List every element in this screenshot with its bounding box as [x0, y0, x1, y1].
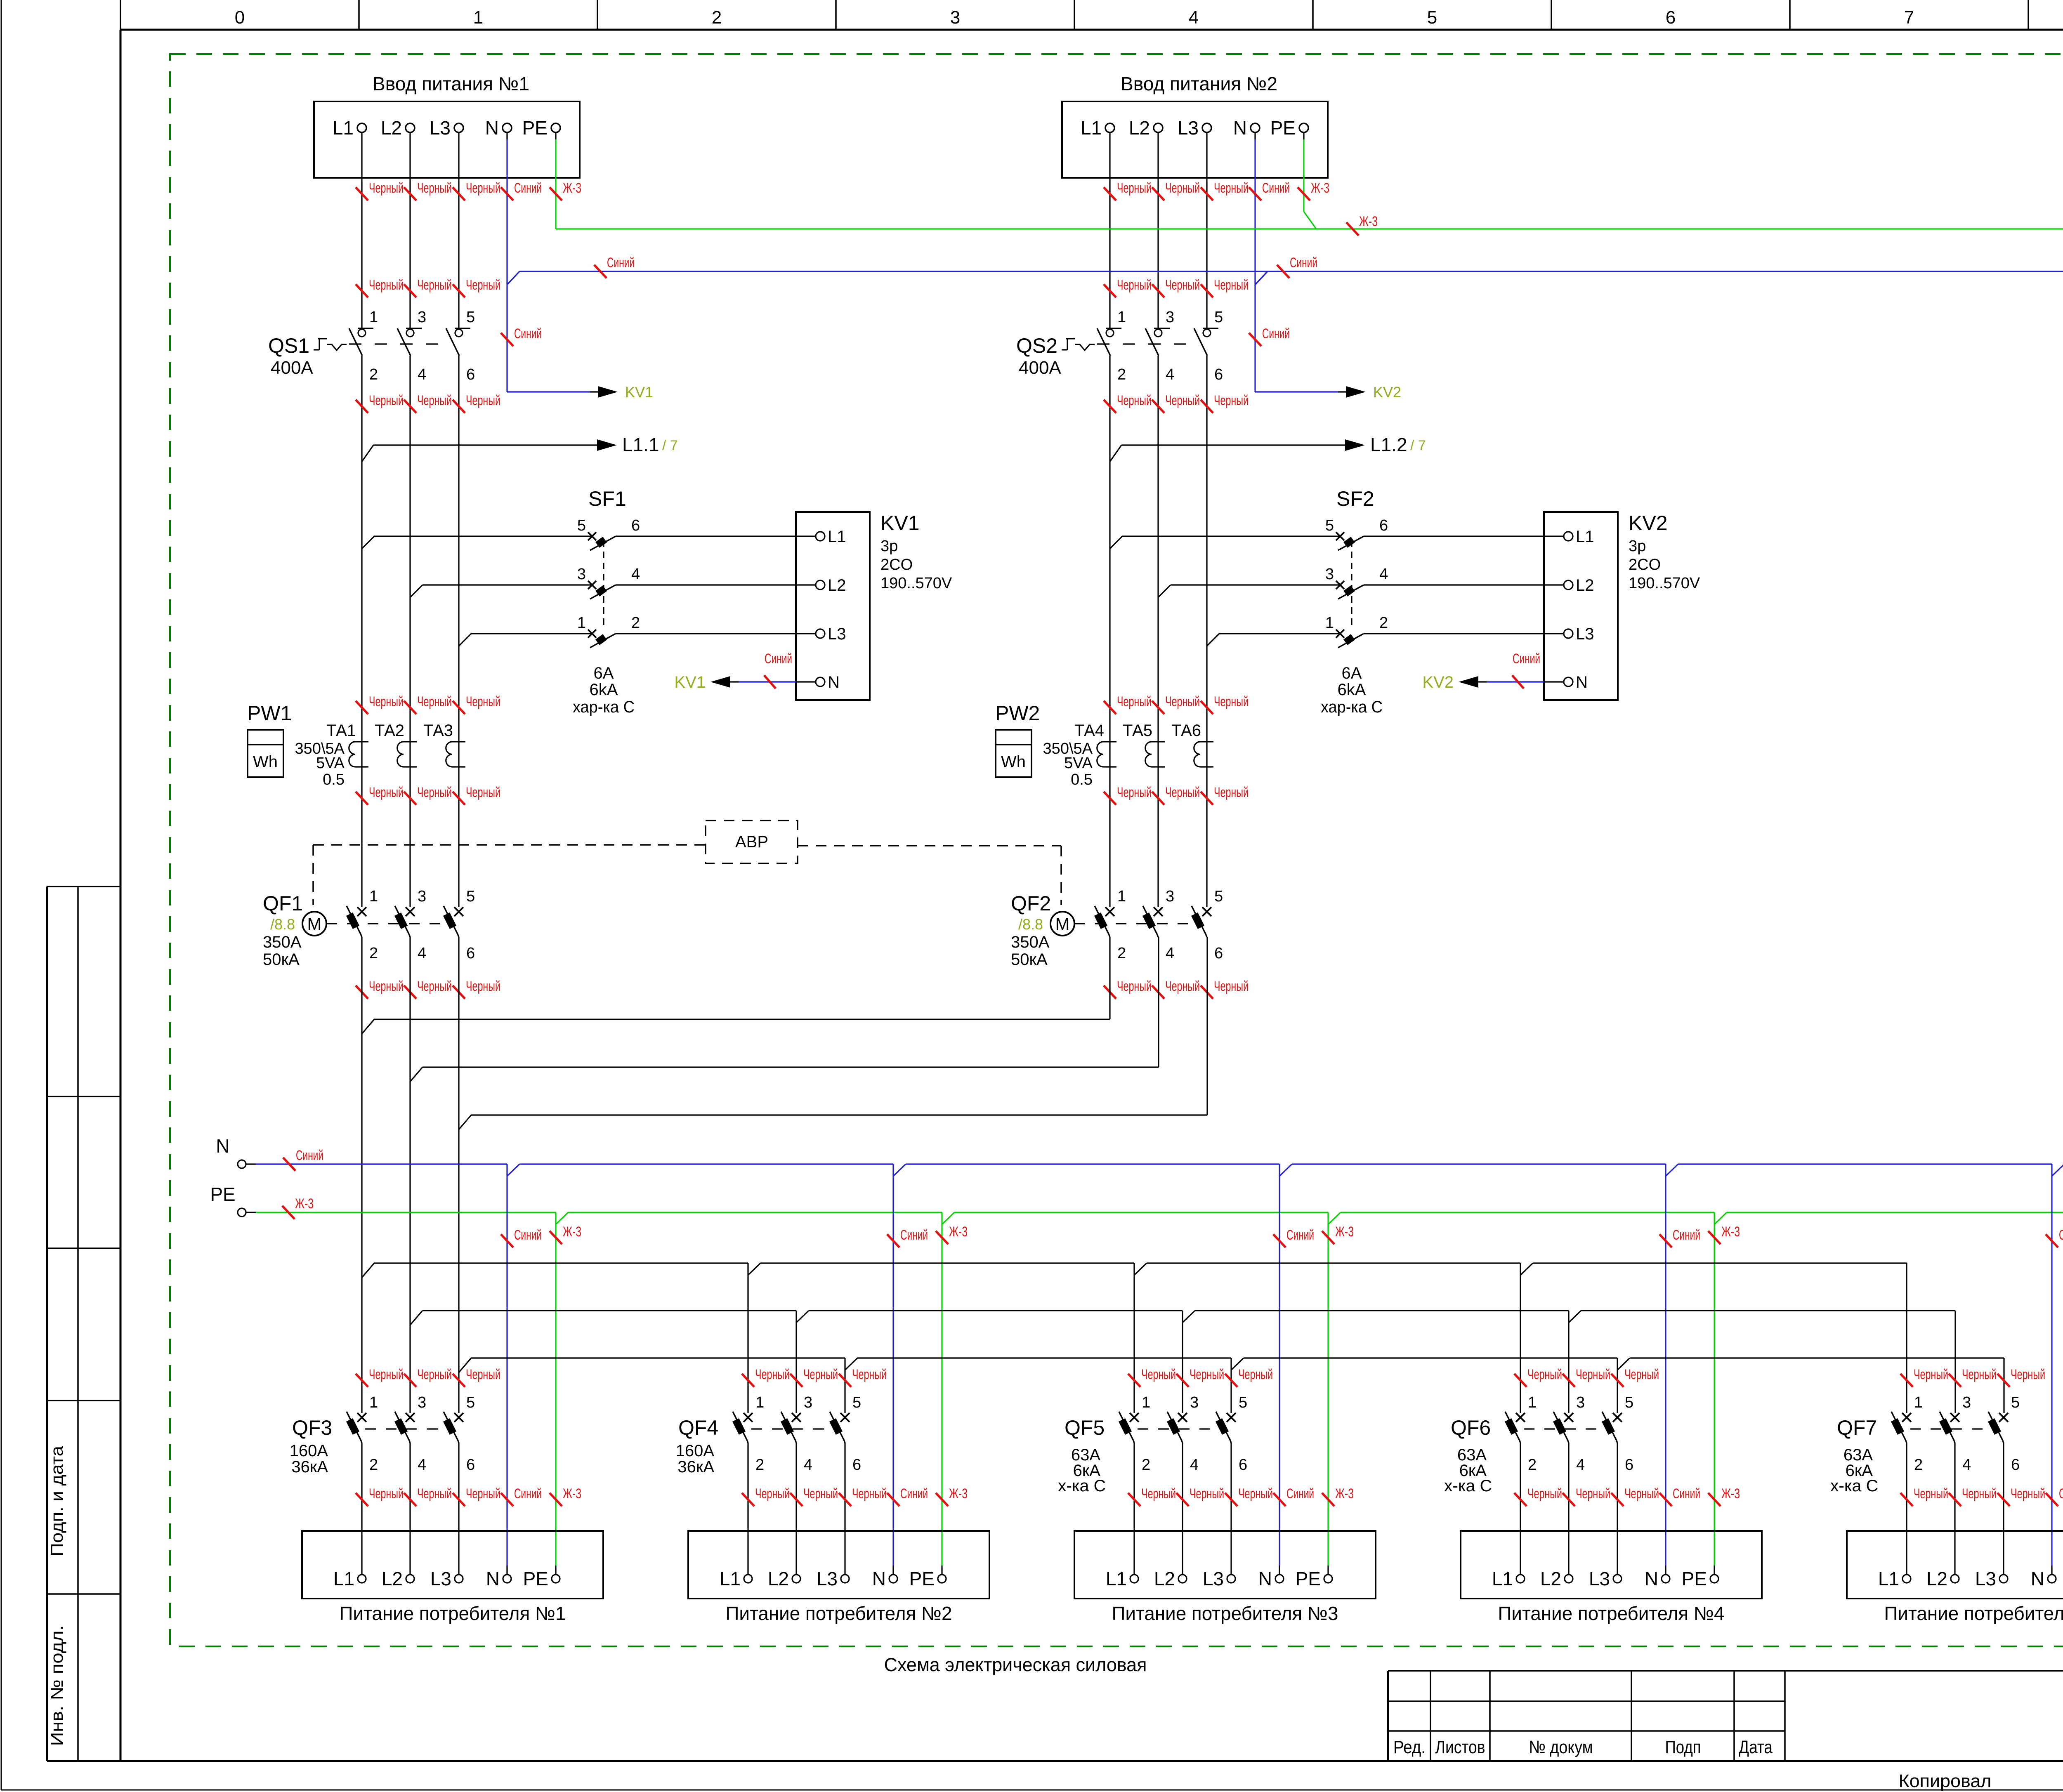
svg-text:1: 1 [369, 1394, 378, 1411]
svg-text:2: 2 [369, 1456, 378, 1474]
svg-text:1: 1 [1117, 309, 1126, 326]
svg-text:400A: 400A [271, 358, 313, 378]
svg-text:Копировал: Копировал [1899, 1771, 1992, 1791]
svg-text:Схема электрическая силовая: Схема электрическая силовая [884, 1654, 1147, 1675]
svg-text:6: 6 [1214, 366, 1223, 383]
svg-text:PW2: PW2 [995, 702, 1040, 725]
svg-text:Ж-3: Ж-3 [295, 1196, 314, 1212]
svg-text:QF5: QF5 [1065, 1416, 1105, 1439]
svg-text:Черный: Черный [1165, 785, 1200, 800]
svg-text:160А: 160А [676, 1442, 715, 1460]
svg-text:L2: L2 [1129, 117, 1150, 139]
svg-text:5: 5 [852, 1394, 861, 1411]
svg-text:Черный: Черный [1214, 180, 1249, 196]
svg-text:ТА6: ТА6 [1171, 722, 1201, 740]
svg-text:L1.2: L1.2 [1370, 434, 1407, 455]
svg-text:ТА4: ТА4 [1074, 722, 1104, 740]
svg-text:х-ка С: х-ка С [1444, 1477, 1492, 1495]
svg-text:4: 4 [418, 1456, 426, 1474]
svg-text:L3: L3 [430, 117, 451, 139]
svg-text:N: N [1645, 1568, 1658, 1589]
svg-text:L2: L2 [1576, 576, 1594, 594]
svg-text:L3: L3 [1203, 1568, 1224, 1589]
svg-text:Черный: Черный [369, 694, 404, 710]
svg-text:Черный: Черный [1214, 393, 1249, 408]
svg-text:Черный: Черный [1624, 1367, 1659, 1382]
svg-text:1: 1 [755, 1394, 764, 1411]
svg-text:4: 4 [1576, 1456, 1585, 1474]
svg-text:Черный: Черный [417, 1367, 452, 1382]
svg-text:N: N [216, 1135, 229, 1157]
svg-text:Синий: Синий [2059, 1486, 2063, 1502]
svg-text:Ввод питания №2: Ввод питания №2 [1121, 73, 1277, 94]
svg-text:5: 5 [1325, 517, 1334, 534]
svg-text:Черный: Черный [1914, 1486, 1948, 1502]
svg-text:PE: PE [522, 117, 548, 139]
svg-text:3: 3 [950, 7, 960, 28]
svg-text:Питание потребителя №2: Питание потребителя №2 [726, 1603, 952, 1624]
svg-text:N: N [1576, 673, 1588, 691]
svg-text:6: 6 [1379, 517, 1388, 534]
svg-text:Синий: Синий [1673, 1486, 1700, 1502]
svg-text:6: 6 [1214, 945, 1223, 962]
svg-text:5: 5 [466, 888, 475, 905]
svg-text:Ж-3: Ж-3 [1721, 1224, 1740, 1240]
svg-text:Синий: Синий [1286, 1227, 1314, 1243]
svg-text:1: 1 [1142, 1394, 1150, 1411]
svg-text:L3: L3 [1576, 625, 1594, 643]
svg-text:Черный: Черный [466, 1486, 500, 1502]
svg-text:0.5: 0.5 [1071, 771, 1093, 788]
svg-text:Синий: Синий [1262, 326, 1290, 342]
svg-text:Синий: Синий [1290, 255, 1317, 271]
svg-text:Черный: Черный [417, 393, 452, 408]
svg-text:6A: 6A [594, 664, 614, 682]
svg-text:Синий: Синий [765, 651, 792, 667]
svg-text:5: 5 [1625, 1394, 1633, 1411]
svg-text:1: 1 [473, 7, 483, 28]
svg-text:Синий: Синий [900, 1486, 928, 1502]
svg-text:L1: L1 [720, 1568, 741, 1589]
svg-text:Ж-3: Ж-3 [563, 1224, 581, 1240]
svg-text:Черный: Черный [803, 1486, 838, 1502]
svg-text:6: 6 [852, 1456, 861, 1474]
svg-text:Черный: Черный [1214, 694, 1249, 710]
svg-text:5: 5 [1239, 1394, 1247, 1411]
svg-text:Черный: Черный [1962, 1367, 1997, 1382]
svg-text:Черный: Черный [1117, 785, 1152, 800]
svg-text:Черный: Черный [369, 1486, 404, 1502]
svg-text:M: M [1055, 914, 1070, 934]
svg-text:5: 5 [466, 1394, 475, 1411]
svg-text:3p: 3p [1629, 538, 1646, 555]
svg-text:Ж-3: Ж-3 [563, 180, 581, 196]
svg-text:QS1: QS1 [268, 334, 309, 357]
svg-text:Черный: Черный [369, 785, 404, 800]
svg-text:4: 4 [1166, 366, 1174, 383]
svg-text:Черный: Черный [2011, 1486, 2045, 1502]
svg-text:3: 3 [418, 888, 426, 905]
svg-text:3: 3 [1166, 888, 1174, 905]
svg-text:QF3: QF3 [292, 1416, 332, 1439]
svg-text:Питание потребителя №4: Питание потребителя №4 [1498, 1603, 1725, 1624]
svg-text:6: 6 [466, 945, 475, 962]
svg-text:Черный: Черный [466, 277, 500, 293]
svg-text:Синий: Синий [1513, 651, 1540, 667]
svg-text:3: 3 [1962, 1394, 1971, 1411]
svg-text:L2: L2 [381, 117, 402, 139]
svg-text:Синий: Синий [514, 180, 542, 196]
svg-text:PE: PE [1270, 117, 1296, 139]
svg-text:/8.8: /8.8 [270, 916, 295, 933]
svg-text:1: 1 [1325, 614, 1334, 632]
svg-text:4: 4 [1190, 1456, 1199, 1474]
svg-text:L2: L2 [1540, 1568, 1561, 1589]
svg-text:Черный: Черный [466, 785, 500, 800]
svg-text:50кА: 50кА [1011, 950, 1048, 969]
svg-text:6: 6 [1666, 7, 1676, 28]
svg-text:L1: L1 [333, 117, 354, 139]
svg-text:/ 7: / 7 [1410, 438, 1426, 453]
svg-text:0: 0 [235, 7, 245, 28]
svg-text:L1: L1 [1878, 1568, 1899, 1589]
svg-text:Подп: Подп [1665, 1737, 1701, 1757]
svg-text:5: 5 [577, 517, 586, 534]
svg-text:Черный: Черный [417, 979, 452, 994]
svg-text:5VA: 5VA [316, 755, 345, 772]
svg-text:Синий: Синий [514, 1227, 542, 1243]
svg-text:Черный: Черный [2011, 1367, 2045, 1382]
svg-text:Синий: Синий [1262, 180, 1290, 196]
svg-text:1: 1 [369, 888, 378, 905]
svg-text:1: 1 [1914, 1394, 1923, 1411]
svg-text:Синий: Синий [607, 255, 635, 271]
svg-text:3: 3 [1166, 309, 1174, 326]
svg-text:Ж-3: Ж-3 [949, 1224, 968, 1240]
svg-text:PE: PE [1682, 1568, 1707, 1589]
svg-text:KV1: KV1 [674, 673, 706, 691]
svg-text:5: 5 [1214, 888, 1223, 905]
svg-text:350А: 350А [1011, 933, 1050, 951]
svg-text:400A: 400A [1019, 358, 1061, 378]
svg-text:L2: L2 [1926, 1568, 1947, 1589]
svg-text:Синий: Синий [296, 1148, 323, 1163]
svg-text:2CO: 2CO [1629, 556, 1661, 573]
svg-text:6: 6 [2011, 1456, 2020, 1474]
svg-text:Ж-3: Ж-3 [1335, 1224, 1354, 1240]
svg-text:PE: PE [909, 1568, 935, 1589]
svg-text:2: 2 [1528, 1456, 1537, 1474]
svg-text:4: 4 [804, 1456, 812, 1474]
svg-text:6: 6 [466, 366, 475, 383]
svg-text:Черный: Черный [1527, 1486, 1562, 1502]
svg-text:Подп. и дата: Подп. и дата [47, 1445, 66, 1556]
svg-text:6: 6 [631, 517, 640, 534]
svg-text:L2: L2 [382, 1568, 403, 1589]
svg-text:0.5: 0.5 [323, 771, 345, 788]
svg-text:QS2: QS2 [1016, 334, 1057, 357]
svg-text:Черный: Черный [1576, 1486, 1610, 1502]
svg-text:PE: PE [1296, 1568, 1321, 1589]
svg-text:2CO: 2CO [880, 556, 913, 573]
svg-text:190..570V: 190..570V [880, 575, 952, 592]
svg-text:Черный: Черный [1117, 180, 1152, 196]
svg-text:Черный: Черный [1914, 1367, 1948, 1382]
svg-text:Черный: Черный [1190, 1367, 1224, 1382]
svg-text:Черный: Черный [369, 979, 404, 994]
svg-text:Черный: Черный [1962, 1486, 1997, 1502]
svg-text:4: 4 [1962, 1456, 1971, 1474]
svg-text:PE: PE [523, 1568, 548, 1589]
svg-text:N: N [872, 1568, 886, 1589]
svg-text:6kA: 6kA [590, 681, 618, 699]
svg-text:L1: L1 [333, 1568, 354, 1589]
svg-text:4: 4 [418, 366, 426, 383]
svg-text:Ж-3: Ж-3 [563, 1486, 581, 1502]
svg-text:SF1: SF1 [588, 487, 626, 510]
svg-text:Питание потребителя №5: Питание потребителя №5 [1884, 1603, 2063, 1624]
svg-text:Черный: Черный [1141, 1486, 1176, 1502]
svg-text:Черный: Черный [1117, 277, 1152, 293]
svg-text:3: 3 [418, 1394, 426, 1411]
svg-text:2: 2 [712, 7, 722, 28]
svg-text:1: 1 [369, 309, 378, 326]
svg-text:Черный: Черный [1165, 694, 1200, 710]
svg-text:2: 2 [631, 614, 640, 632]
svg-text:Дата: Дата [1739, 1737, 1773, 1757]
svg-text:2: 2 [369, 366, 378, 383]
svg-text:4: 4 [631, 566, 640, 583]
svg-text:Синий: Синий [514, 1486, 542, 1502]
svg-text:Черный: Черный [1214, 277, 1249, 293]
svg-text:L2: L2 [1154, 1568, 1175, 1589]
svg-text:2: 2 [1117, 945, 1126, 962]
svg-text:L1: L1 [1106, 1568, 1127, 1589]
svg-text:Синий: Синий [900, 1227, 928, 1243]
svg-text:L1.1: L1.1 [622, 434, 659, 455]
svg-text:Черный: Черный [1576, 1367, 1610, 1382]
svg-text:Черный: Черный [852, 1486, 887, 1502]
svg-text:50кА: 50кА [263, 950, 300, 969]
svg-text:4: 4 [1166, 945, 1174, 962]
svg-text:QF2: QF2 [1011, 892, 1051, 915]
svg-text:5: 5 [2011, 1394, 2020, 1411]
svg-text:Черный: Черный [417, 277, 452, 293]
svg-text:N: N [1258, 1568, 1272, 1589]
svg-text:2: 2 [1117, 366, 1126, 383]
svg-text:№ докум: № докум [1529, 1737, 1593, 1757]
svg-text:Ж-3: Ж-3 [1721, 1486, 1740, 1502]
svg-text:Wh: Wh [1001, 753, 1026, 771]
svg-text:Черный: Черный [1190, 1486, 1224, 1502]
svg-text:Ж-3: Ж-3 [1359, 214, 1378, 229]
svg-text:Синий: Синий [514, 326, 542, 342]
svg-text:SF2: SF2 [1336, 487, 1374, 510]
svg-text:Черный: Черный [1141, 1367, 1176, 1382]
svg-text:ТА3: ТА3 [423, 722, 453, 740]
svg-text:х-ка С: х-ка С [1058, 1477, 1106, 1495]
svg-text:Черный: Черный [1165, 180, 1200, 196]
svg-text:N: N [486, 1568, 500, 1589]
svg-text:Черный: Черный [1214, 785, 1249, 800]
svg-text:Черный: Черный [1165, 277, 1200, 293]
svg-text:4: 4 [418, 945, 426, 962]
svg-text:5: 5 [1427, 7, 1437, 28]
svg-text:3p: 3p [880, 538, 898, 555]
svg-text:Ввод питания №1: Ввод питания №1 [373, 73, 529, 94]
svg-text:KV1: KV1 [625, 384, 653, 401]
svg-text:L3: L3 [828, 625, 846, 643]
svg-text:Ред.: Ред. [1393, 1737, 1426, 1757]
svg-text:5: 5 [1214, 309, 1223, 326]
svg-text:Черный: Черный [466, 180, 500, 196]
svg-text:190..570V: 190..570V [1629, 575, 1700, 592]
svg-text:Черный: Черный [417, 694, 452, 710]
svg-text:Черный: Черный [369, 180, 404, 196]
svg-text:Черный: Черный [1624, 1486, 1659, 1502]
svg-text:6: 6 [466, 1456, 475, 1474]
svg-text:L3: L3 [1178, 117, 1199, 139]
svg-text:Черный: Черный [755, 1367, 790, 1382]
svg-text:1: 1 [1117, 888, 1126, 905]
svg-text:6: 6 [1239, 1456, 1247, 1474]
svg-text:Инв. № подл.: Инв. № подл. [47, 1625, 66, 1746]
svg-text:/ 7: / 7 [662, 438, 678, 453]
svg-text:KV2: KV2 [1373, 384, 1401, 401]
svg-text:Ж-3: Ж-3 [1311, 180, 1329, 196]
svg-text:N: N [1233, 117, 1247, 139]
svg-text:L3: L3 [1589, 1568, 1610, 1589]
svg-text:х-ка С: х-ка С [1830, 1477, 1878, 1495]
svg-text:Черный: Черный [417, 180, 452, 196]
svg-text:160А: 160А [290, 1442, 328, 1460]
svg-text:36кА: 36кА [677, 1458, 714, 1476]
svg-text:Черный: Черный [755, 1486, 790, 1502]
svg-text:5: 5 [466, 309, 475, 326]
svg-text:Черный: Черный [803, 1367, 838, 1382]
svg-text:KV1: KV1 [880, 512, 920, 535]
svg-text:L1: L1 [1081, 117, 1102, 139]
svg-text:L1: L1 [828, 528, 846, 546]
svg-text:/8.8: /8.8 [1018, 916, 1043, 933]
svg-text:Черный: Черный [1117, 393, 1152, 408]
svg-text:3: 3 [804, 1394, 812, 1411]
svg-text:2: 2 [1914, 1456, 1923, 1474]
svg-text:Черный: Черный [417, 1486, 452, 1502]
svg-text:1: 1 [577, 614, 586, 632]
svg-text:Черный: Черный [369, 1367, 404, 1382]
svg-text:Черный: Черный [852, 1367, 887, 1382]
svg-text:Черный: Черный [417, 785, 452, 800]
svg-text:QF7: QF7 [1837, 1416, 1877, 1439]
svg-text:Листов: Листов [1435, 1737, 1485, 1757]
svg-text:6A: 6A [1342, 664, 1362, 682]
svg-text:6kA: 6kA [1338, 681, 1366, 699]
svg-text:Черный: Черный [466, 694, 500, 710]
svg-text:Синий: Синий [1286, 1486, 1314, 1502]
svg-text:Wh: Wh [253, 753, 278, 771]
svg-text:Черный: Черный [1238, 1486, 1273, 1502]
svg-text:36кА: 36кА [291, 1458, 328, 1476]
svg-text:L3: L3 [1975, 1568, 1996, 1589]
svg-text:2: 2 [755, 1456, 764, 1474]
svg-text:Черный: Черный [466, 1367, 500, 1382]
svg-text:3: 3 [1190, 1394, 1199, 1411]
svg-text:N: N [828, 673, 840, 691]
svg-text:QF1: QF1 [263, 892, 303, 915]
svg-text:Ж-3: Ж-3 [949, 1486, 968, 1502]
svg-text:5VA: 5VA [1064, 755, 1093, 772]
svg-text:Черный: Черный [369, 393, 404, 408]
svg-text:Черный: Черный [369, 277, 404, 293]
svg-text:Черный: Черный [1165, 393, 1200, 408]
svg-text:Черный: Черный [1214, 979, 1249, 994]
svg-text:Ж-3: Ж-3 [1335, 1486, 1354, 1502]
svg-text:PW1: PW1 [247, 702, 292, 725]
svg-text:АВР: АВР [735, 833, 768, 851]
svg-text:Черный: Черный [1527, 1367, 1562, 1382]
svg-text:4: 4 [1379, 566, 1388, 583]
svg-text:Питание потребителя №3: Питание потребителя №3 [1112, 1603, 1338, 1624]
svg-text:2: 2 [1142, 1456, 1150, 1474]
svg-text:Синий: Синий [2059, 1227, 2063, 1243]
svg-text:Черный: Черный [1238, 1367, 1273, 1382]
svg-text:L2: L2 [828, 576, 846, 594]
svg-text:3: 3 [418, 309, 426, 326]
svg-text:Черный: Черный [1117, 979, 1152, 994]
svg-text:Питание потребителя №1: Питание потребителя №1 [340, 1603, 566, 1624]
svg-text:4: 4 [1189, 7, 1199, 28]
svg-text:KV2: KV2 [1422, 673, 1454, 691]
svg-text:M: M [307, 914, 322, 934]
svg-text:L3: L3 [817, 1568, 838, 1589]
svg-text:L2: L2 [768, 1568, 789, 1589]
svg-text:L3: L3 [430, 1568, 451, 1589]
svg-text:Черный: Черный [1165, 979, 1200, 994]
svg-text:ТА2: ТА2 [375, 722, 404, 740]
svg-text:N: N [485, 117, 499, 139]
svg-text:QF6: QF6 [1451, 1416, 1491, 1439]
svg-text:ТА5: ТА5 [1123, 722, 1152, 740]
svg-text:2: 2 [1379, 614, 1388, 632]
svg-text:3: 3 [577, 566, 586, 583]
svg-text:N: N [2031, 1568, 2044, 1589]
svg-text:хар-ка C: хар-ка C [1321, 698, 1383, 716]
svg-text:7: 7 [1904, 7, 1914, 28]
svg-text:Черный: Черный [1117, 694, 1152, 710]
svg-text:хар-ка C: хар-ка C [573, 698, 635, 716]
svg-text:Черный: Черный [466, 393, 500, 408]
svg-text:PE: PE [210, 1184, 235, 1205]
svg-text:Черный: Черный [466, 979, 500, 994]
svg-text:Синий: Синий [1673, 1227, 1700, 1243]
svg-text:2: 2 [369, 945, 378, 962]
svg-text:3: 3 [1576, 1394, 1585, 1411]
svg-text:L1: L1 [1492, 1568, 1513, 1589]
svg-text:3: 3 [1325, 566, 1334, 583]
svg-text:350А: 350А [263, 933, 302, 951]
svg-text:6: 6 [1625, 1456, 1633, 1474]
svg-text:ТА1: ТА1 [326, 722, 356, 740]
svg-text:QF4: QF4 [678, 1416, 718, 1439]
svg-text:1: 1 [1528, 1394, 1537, 1411]
svg-text:KV2: KV2 [1629, 512, 1668, 535]
svg-text:L1: L1 [1576, 528, 1594, 546]
